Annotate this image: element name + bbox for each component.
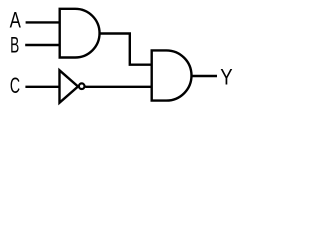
and-gate U3 bbox=[152, 50, 192, 100]
svg-text:Y: Y bbox=[220, 65, 233, 90]
svg-text:B: B bbox=[10, 33, 19, 58]
wire C bbox=[25, 86, 58, 88]
and-gate U1 bbox=[60, 9, 100, 58]
svg-text:A: A bbox=[10, 7, 22, 32]
svg-text:C: C bbox=[10, 73, 20, 98]
inverter U2 bubble bbox=[79, 83, 85, 89]
wire U2 output to U3 input bbox=[85, 86, 151, 88]
wire A bbox=[26, 21, 60, 23]
wire Y output bbox=[191, 75, 218, 77]
wire U1 output to U3 input bbox=[99, 34, 152, 65]
inverter U2 triangle bbox=[60, 70, 79, 102]
wire B bbox=[25, 44, 60, 46]
